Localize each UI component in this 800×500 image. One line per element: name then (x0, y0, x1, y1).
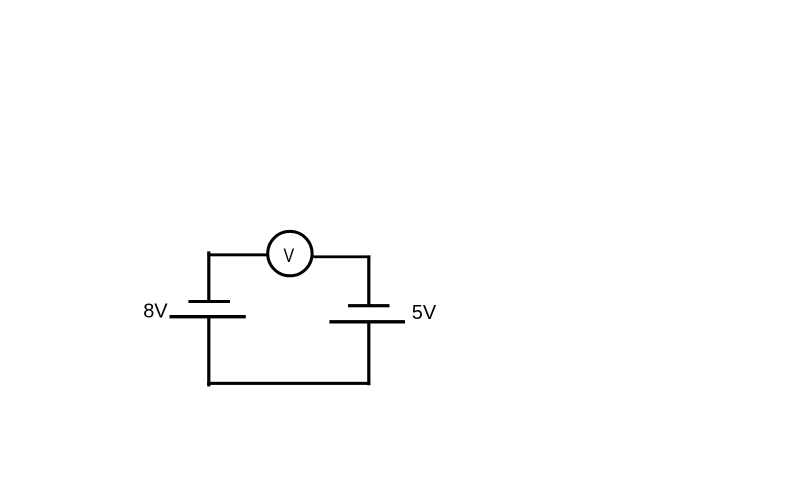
wire: left vertical lower segment (207, 317, 210, 387)
battery B1 long plate (bottom) (170, 315, 246, 318)
svg-text:8V: 8V (143, 301, 168, 323)
voltmeter U1 circle (268, 231, 312, 275)
svg-text:V: V (283, 244, 294, 266)
wire: top-right horizontal segment (314, 255, 371, 258)
wire: right vertical lower segment (367, 322, 370, 385)
wire: top-left horizontal segment (207, 253, 266, 256)
battery B2 long plate (bottom) (329, 320, 405, 323)
battery B2 short plate (top) (348, 304, 390, 307)
svg-text:5V: 5V (412, 302, 437, 324)
wire: left vertical upper segment (207, 251, 210, 301)
wire: right vertical upper segment (367, 255, 370, 305)
battery B1 short plate (top) (188, 300, 230, 303)
wire: bottom horizontal segment (207, 382, 370, 385)
